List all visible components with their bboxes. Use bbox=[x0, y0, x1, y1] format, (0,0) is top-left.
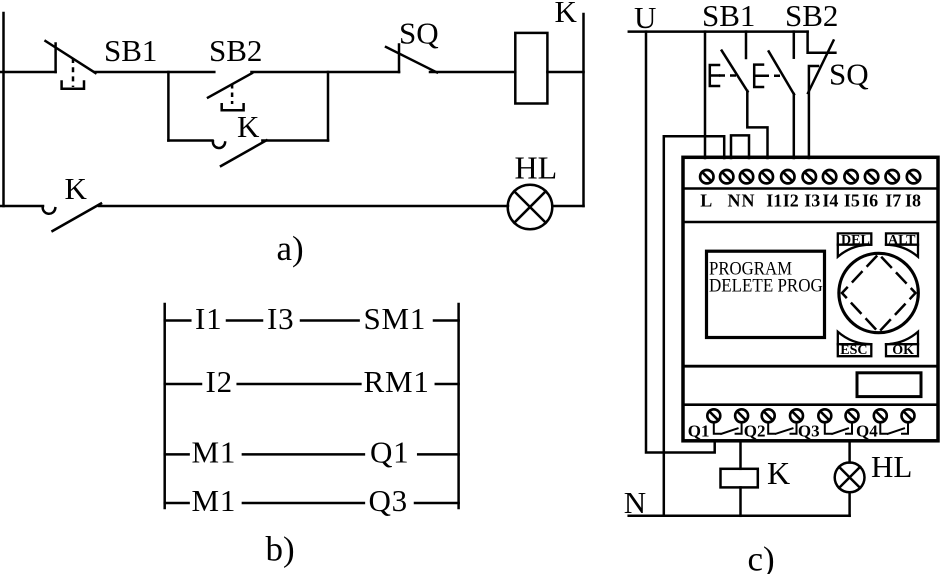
svg-text:OK: OK bbox=[892, 343, 914, 358]
svg-text:I1: I1 bbox=[766, 191, 782, 211]
svg-text:a): a) bbox=[277, 229, 304, 268]
svg-text:N: N bbox=[728, 191, 741, 211]
svg-text:I2: I2 bbox=[783, 191, 799, 211]
svg-text:SB1: SB1 bbox=[104, 33, 157, 68]
svg-text:K: K bbox=[767, 455, 790, 491]
svg-text:I3: I3 bbox=[804, 191, 820, 211]
svg-text:U: U bbox=[634, 0, 656, 35]
svg-text:c): c) bbox=[748, 540, 775, 574]
svg-text:I5: I5 bbox=[844, 191, 860, 211]
svg-text:I8: I8 bbox=[905, 191, 921, 211]
svg-text:SQ: SQ bbox=[399, 16, 439, 51]
svg-text:SQ: SQ bbox=[829, 57, 869, 92]
svg-text:M1: M1 bbox=[192, 483, 237, 518]
svg-text:HL: HL bbox=[515, 150, 558, 186]
svg-text:HL: HL bbox=[871, 449, 912, 484]
svg-text:K: K bbox=[65, 171, 88, 206]
svg-text:SB1: SB1 bbox=[702, 0, 755, 33]
svg-text:I4: I4 bbox=[822, 191, 838, 211]
svg-text:DEL: DEL bbox=[841, 233, 870, 248]
svg-text:Q2: Q2 bbox=[744, 422, 766, 441]
svg-text:DELETE PROG: DELETE PROG bbox=[709, 275, 823, 296]
svg-text:M1: M1 bbox=[192, 435, 237, 470]
svg-text:ALT: ALT bbox=[888, 233, 916, 248]
svg-text:SB2: SB2 bbox=[785, 0, 838, 33]
svg-text:I6: I6 bbox=[862, 191, 878, 211]
svg-text:K: K bbox=[555, 0, 578, 29]
svg-text:I7: I7 bbox=[885, 191, 901, 211]
svg-text:Q4: Q4 bbox=[856, 422, 878, 441]
svg-text:I1: I1 bbox=[195, 301, 222, 336]
svg-text:Q1: Q1 bbox=[688, 422, 710, 441]
svg-text:I2: I2 bbox=[206, 364, 233, 399]
svg-text:Q3: Q3 bbox=[369, 483, 409, 518]
svg-text:RM1: RM1 bbox=[364, 364, 430, 399]
svg-text:Q3: Q3 bbox=[798, 422, 820, 441]
svg-text:b): b) bbox=[266, 530, 295, 569]
svg-text:K: K bbox=[237, 109, 260, 144]
svg-text:N: N bbox=[742, 191, 755, 211]
svg-text:Q1: Q1 bbox=[370, 435, 410, 470]
svg-text:I3: I3 bbox=[267, 301, 294, 336]
svg-text:ESC: ESC bbox=[840, 343, 867, 358]
svg-text:SB2: SB2 bbox=[209, 33, 262, 68]
svg-text:SM1: SM1 bbox=[364, 301, 427, 336]
svg-text:L: L bbox=[700, 191, 712, 211]
svg-text:N: N bbox=[624, 485, 646, 520]
